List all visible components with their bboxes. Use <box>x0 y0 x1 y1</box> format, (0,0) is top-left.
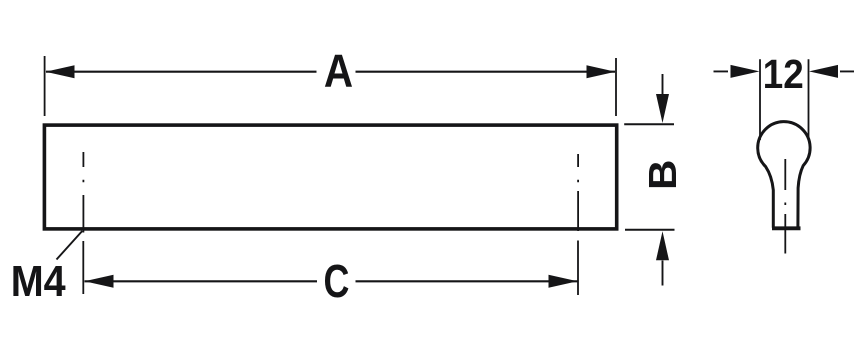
svg-text:12: 12 <box>763 52 804 97</box>
svg-text:M4: M4 <box>11 256 66 305</box>
svg-text:C: C <box>324 256 350 307</box>
svg-text:A: A <box>324 46 353 97</box>
svg-text:B: B <box>640 160 684 190</box>
